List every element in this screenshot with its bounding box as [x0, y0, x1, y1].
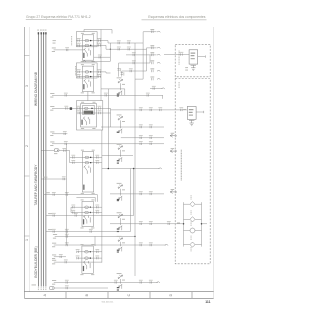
wire bottom long	[54, 287, 108, 289]
relay K2	[76, 63, 97, 92]
inline connector	[152, 54, 154, 56]
wire	[41, 178, 66, 180]
E2 rotated label top	[178, 82, 181, 83]
component S3	[117, 143, 122, 146]
relay K1	[76, 32, 97, 61]
wire	[52, 143, 164, 145]
component S5	[117, 211, 122, 214]
wire K4 pin b	[70, 162, 102, 164]
top link wire	[84, 29, 112, 31]
inline connector	[99, 71, 101, 73]
inline connector	[77, 257, 79, 259]
connector X2 housing bottom	[50, 287, 55, 290]
inline connector	[77, 251, 79, 253]
wire K6 pin b	[77, 257, 102, 259]
wire	[102, 155, 133, 157]
wire jog	[107, 41, 109, 43]
inline connector	[73, 211, 75, 213]
vertical x135 upper	[134, 43, 136, 71]
inline connector	[60, 256, 62, 258]
inline connector	[99, 107, 101, 109]
stack left rail	[183, 202, 185, 246]
inline connector	[152, 47, 154, 49]
vertical collector x110.5	[110, 108, 112, 127]
vertical collector x101	[100, 30, 102, 101]
wire	[52, 94, 163, 96]
inline connector	[128, 48, 130, 50]
inline connector	[133, 54, 135, 56]
wire	[55, 235, 135, 237]
number strip inner line	[28, 27, 30, 292]
bracket mid	[147, 48, 157, 71]
inline connector	[78, 112, 80, 114]
inline connector	[140, 143, 142, 145]
inline connector	[150, 193, 152, 195]
svg-text:3: 3	[25, 85, 29, 87]
wire K5 feed corner	[96, 195, 98, 202]
off-page connector hook	[159, 168, 162, 169]
inline connector	[152, 78, 154, 80]
junction	[201, 223, 203, 225]
inline connector	[97, 156, 99, 158]
inline connector	[153, 87, 155, 89]
stack right rail	[201, 202, 203, 246]
wire	[94, 56, 111, 58]
off-page arrow	[170, 134, 174, 137]
svg-text:Esquemas elétricos dos compone: Esquemas elétricos dos componentes	[148, 15, 206, 19]
wire K2 pin b	[77, 76, 101, 78]
row ticks	[24, 56, 29, 236]
relay K3 outer loop	[77, 101, 103, 130]
component S4	[117, 182, 122, 185]
inline connector	[64, 149, 66, 151]
inline connector	[97, 162, 99, 164]
inline connector	[150, 126, 152, 128]
inline connector	[66, 49, 68, 51]
wire K6 top feed	[94, 236, 96, 246]
inline connector	[65, 261, 67, 263]
svg-text:BODYBUILDER (BB): BODYBUILDER (BB)	[34, 246, 38, 277]
inline connector vertical	[121, 73, 123, 75]
inline connector	[115, 281, 117, 283]
E1 rotated label	[178, 51, 181, 52]
wire	[46, 215, 134, 217]
wire jog	[105, 45, 107, 49]
inline connector	[133, 62, 135, 64]
hook wire 245	[165, 244, 168, 245]
component U2 in E2	[187, 107, 196, 120]
inline connector	[128, 42, 130, 44]
wire	[54, 261, 102, 263]
wire K2 pin a	[77, 71, 106, 73]
wire B4 right	[195, 244, 201, 246]
wire	[102, 168, 160, 170]
vertical collector x108.3	[107, 89, 109, 169]
wire K5 left link	[70, 207, 72, 212]
vertical collector x101.9	[101, 130, 103, 263]
component S7	[117, 272, 122, 275]
wire	[44, 194, 98, 196]
wire	[54, 281, 158, 283]
frame right edge	[213, 27, 215, 298]
off-page connector hook	[157, 62, 160, 63]
wire K4 pin a	[70, 156, 102, 158]
relay K4	[82, 152, 93, 192]
off-page connector hook	[157, 31, 160, 32]
inline connector	[140, 126, 142, 128]
vertical x110.3	[109, 43, 111, 61]
inline connector	[140, 244, 142, 246]
inline connector	[140, 109, 142, 111]
inline connector	[152, 70, 154, 72]
junction on y236.4	[134, 236, 135, 237]
wire K5 pin a	[71, 206, 102, 208]
wire K6 pin a	[77, 251, 102, 253]
frame left edge	[23, 27, 25, 298]
wire	[162, 95, 164, 99]
inline connector	[97, 257, 99, 259]
inline connector	[78, 75, 80, 77]
wire B2 left	[184, 218, 190, 220]
inline connector	[97, 211, 99, 213]
wire	[54, 49, 84, 51]
orphan wire number labels K1	[53, 39, 56, 42]
relay K5	[82, 201, 93, 226]
inline connector	[66, 107, 68, 109]
inline connector	[150, 281, 152, 283]
wire	[41, 150, 54, 152]
svg-text:111: 111	[205, 300, 210, 304]
inline connector	[105, 94, 107, 96]
inline connector	[140, 137, 142, 139]
inline connector	[99, 75, 101, 77]
bus line 4	[45, 33, 47, 286]
inline connector	[73, 156, 75, 158]
off-page connector hook	[157, 70, 160, 71]
wire	[54, 256, 66, 258]
bus line 2	[40, 33, 42, 286]
dark connector blob on K3 pin a	[70, 107, 72, 110]
vertical x130.5	[130, 169, 132, 232]
inline connector	[147, 94, 149, 96]
inline connector	[140, 223, 142, 225]
wire	[54, 244, 166, 246]
wire	[111, 30, 113, 34]
wire B2 right	[195, 218, 201, 220]
wire	[150, 88, 163, 90]
inline connector	[118, 42, 120, 44]
header left underline	[26, 18, 72, 20]
bracket inner	[150, 55, 157, 63]
wire U2 out	[196, 111, 204, 113]
component U1 in E1	[189, 50, 198, 64]
inline connector	[97, 251, 99, 253]
inline connector	[65, 94, 67, 96]
inline connector	[63, 178, 65, 180]
inline connector	[64, 133, 66, 135]
dashed enclosure E2	[175, 79, 210, 264]
svg-text:504.000.111: 504.000.111	[102, 301, 115, 303]
inline connector	[130, 70, 132, 72]
wire	[46, 231, 131, 233]
inline connector	[99, 39, 101, 41]
inline connector	[181, 53, 183, 55]
inline connector	[99, 44, 101, 46]
wire K5 bracket b	[76, 197, 95, 201]
inline connector	[73, 162, 75, 164]
wire jog K2	[106, 72, 111, 73]
wire	[52, 133, 67, 135]
component S6	[117, 235, 122, 238]
wire	[110, 193, 164, 195]
wire K1 pin a	[76, 40, 108, 42]
svg-text:TAILREP AND SWAPBODY: TAILREP AND SWAPBODY	[34, 164, 38, 206]
bus end label	[32, 284, 37, 287]
inline connector	[75, 214, 77, 216]
vertical S1 feed b	[121, 71, 123, 77]
inline connector	[152, 31, 154, 33]
off-page connector hook	[157, 78, 160, 79]
wire	[121, 137, 164, 139]
inline connector	[66, 230, 68, 232]
wire y88.9	[101, 88, 125, 90]
inline connector	[66, 193, 68, 195]
K2 left rotated label	[74, 66, 77, 67]
wire X1 to K4 riser	[59, 150, 70, 152]
inline connector	[150, 244, 152, 246]
inline connector	[65, 143, 67, 145]
vertical S1 feed a	[118, 63, 120, 77]
junction	[133, 168, 135, 170]
bracket outer	[143, 32, 156, 79]
wire B1 right	[195, 203, 201, 205]
inline connector	[140, 281, 142, 283]
junction	[183, 223, 185, 225]
K3 internal dense text block	[84, 111, 94, 114]
wire	[111, 109, 188, 111]
wire K1 pin b	[76, 44, 106, 46]
inline connector	[78, 39, 80, 41]
wire K3 pin b	[78, 112, 111, 114]
inline connector	[73, 206, 75, 208]
inline connector	[99, 112, 101, 114]
wire B3 left	[184, 230, 190, 232]
wire B1 left	[184, 203, 190, 205]
junction	[110, 49, 111, 50]
connector label	[177, 222, 180, 225]
wire	[108, 42, 143, 44]
wire	[119, 62, 150, 64]
wire K5 pin b	[71, 212, 102, 214]
K1 left rotated label	[70, 36, 73, 37]
vertical collector x66.5	[66, 144, 68, 245]
inline connector	[160, 109, 162, 111]
inline connector	[181, 109, 183, 111]
inline connector	[53, 193, 55, 195]
wire jog 88.9-95.3	[124, 89, 126, 95]
off-page connector hook	[162, 88, 165, 89]
inline connector	[78, 44, 80, 46]
inline connector	[140, 193, 142, 195]
E2 rotated center label	[180, 150, 183, 151]
wire U1 out	[198, 56, 206, 58]
inline connector	[150, 223, 152, 225]
inline connector	[150, 143, 152, 145]
bottom grid band	[24, 292, 213, 299]
inline connector	[150, 109, 152, 111]
off-page arrow	[170, 150, 174, 153]
connector X1 housing	[54, 149, 59, 152]
hook wire 282	[157, 282, 160, 283]
svg-text:2: 2	[25, 145, 29, 147]
inline connector	[53, 230, 55, 232]
inline connector	[168, 223, 170, 225]
wire	[87, 92, 89, 101]
bus line 1	[37, 33, 39, 286]
inline connector	[66, 235, 68, 237]
inline connector	[53, 214, 55, 216]
svg-text:1: 1	[25, 239, 29, 241]
inline connector	[97, 206, 99, 208]
relay K6	[82, 246, 93, 273]
inline connector	[66, 281, 68, 283]
hook left end	[83, 61, 86, 62]
header right underline	[142, 19, 207, 21]
wire	[135, 78, 143, 80]
svg-text:Grupo 27 Esquema elétrico FIA: Grupo 27 Esquema elétrico FIA 771 NH1-2	[26, 15, 91, 19]
inline connector	[99, 56, 101, 58]
inline connector	[150, 137, 152, 139]
svg-text:WIRING DIAGRAM NB: WIRING DIAGRAM NB	[34, 71, 38, 106]
inline connector vertical	[117, 69, 119, 71]
inline connector	[118, 48, 120, 50]
wire into E1	[164, 54, 189, 56]
inline connector	[66, 244, 68, 246]
junction	[108, 168, 110, 170]
inline connector	[78, 71, 80, 73]
wire B3 right	[195, 230, 201, 232]
wire into stack	[110, 223, 184, 225]
wire	[126, 54, 150, 56]
component S2	[117, 114, 122, 117]
off-page arrow	[170, 190, 174, 193]
inline connector	[152, 62, 154, 64]
vertical x133.6	[133, 169, 135, 216]
wire stack out	[202, 223, 208, 225]
wire	[106, 48, 147, 50]
wire	[84, 60, 110, 62]
wire	[83, 30, 85, 32]
component S1	[117, 76, 122, 79]
vertical wire x69.7	[69, 151, 71, 163]
vertical x135 long	[134, 71, 136, 276]
wire	[101, 126, 164, 128]
inline connector	[66, 287, 68, 289]
wire	[122, 70, 147, 72]
off-page connector hook	[157, 47, 160, 48]
inline connector	[78, 107, 80, 109]
inline connector	[90, 230, 92, 232]
bus top labels	[37, 29, 39, 32]
bus line 3	[43, 33, 45, 286]
dashed enclosure E1	[175, 44, 210, 77]
wire B4 left	[184, 244, 190, 246]
off-page connector hook	[157, 54, 160, 55]
wire	[52, 107, 111, 109]
